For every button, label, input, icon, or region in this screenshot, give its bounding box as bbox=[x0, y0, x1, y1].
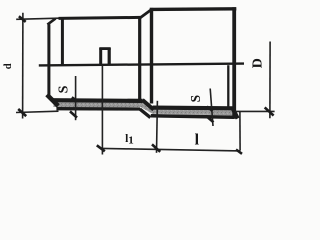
svg-text:S: S bbox=[188, 95, 203, 103]
svg-text:D: D bbox=[251, 58, 266, 68]
svg-text:d: d bbox=[3, 63, 14, 69]
svg-text:S: S bbox=[56, 85, 71, 93]
svg-text:l1: l1 bbox=[125, 133, 134, 147]
svg-text:l: l bbox=[195, 132, 200, 149]
